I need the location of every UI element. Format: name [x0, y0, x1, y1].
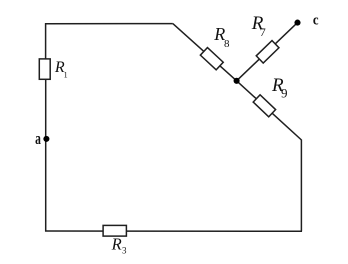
- svg-text:3: 3: [122, 246, 127, 256]
- wire diagonal to R8: [173, 24, 237, 81]
- svg-text:1: 1: [64, 70, 68, 79]
- wire right vertical: [300, 140, 302, 232]
- svg-text:R: R: [111, 235, 122, 254]
- svg-text:a: a: [35, 130, 41, 149]
- resistor R8 body: [200, 48, 223, 70]
- svg-text:c: c: [313, 13, 319, 29]
- wire top horizontal: [45, 23, 173, 25]
- svg-text:7: 7: [260, 25, 266, 39]
- resistor R3 body: [103, 225, 126, 236]
- wire diagonal R9 branch: [237, 81, 302, 140]
- resistor R9 body: [253, 95, 275, 117]
- node a dot: [43, 136, 49, 142]
- svg-text:8: 8: [224, 38, 230, 50]
- node c dot: [294, 20, 300, 26]
- resistor R1 body: [39, 59, 50, 79]
- wire bottom horizontal: [45, 230, 302, 232]
- wire diagonal R7 branch: [237, 23, 298, 81]
- wire left vertical upper: [45, 23, 47, 60]
- svg-text:9: 9: [281, 86, 288, 101]
- resistor R7 body: [256, 41, 279, 63]
- wire left vertical lower: [45, 80, 47, 232]
- node junction dot: [234, 78, 240, 84]
